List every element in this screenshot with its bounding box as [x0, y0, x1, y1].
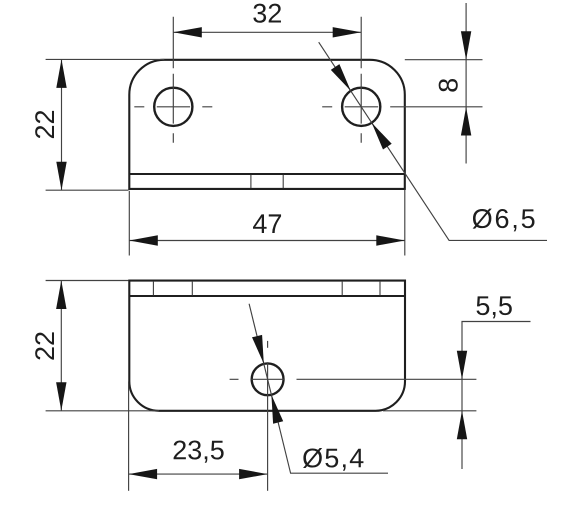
dimension 47 text	[253, 214, 281, 233]
leader Ø5,4 text	[303, 448, 363, 471]
leader Ø6,5 line	[319, 42, 547, 240]
centerline H3 horizontal	[230, 378, 284, 380]
dimension 22 top arrow up	[56, 59, 66, 88]
dimension 8 arrow up	[461, 107, 471, 136]
dimension 5,5 line with shelf	[462, 322, 531, 470]
dimension 23,5 text	[174, 440, 224, 462]
dimension 32 arrow left	[173, 27, 202, 37]
dimension 22 bottom extension top	[46, 280, 129, 282]
centerline H1 horizontal	[134, 106, 212, 108]
bend relief tick 1 top view	[250, 175, 252, 188]
dimension 22 top line	[61, 59, 63, 190]
hole H1 left (Ø6,5)	[154, 88, 192, 126]
dimension 47 arrow left	[129, 235, 158, 245]
part outline bottom view	[129, 281, 405, 411]
centerline H3 vertical top dash	[267, 341, 269, 348]
bend relief tick 3 bottom view	[341, 281, 343, 295]
dimension 22 bottom arrow up	[56, 281, 66, 310]
leader Ø5,4 arrow upper	[252, 335, 264, 364]
dimension 47 arrow right	[376, 235, 405, 245]
dimension 8 text	[439, 79, 458, 92]
dimension 22 top extension top	[46, 58, 165, 60]
hole H2 right (Ø6,5)	[342, 88, 380, 126]
dimension 5,5 arrow up	[457, 411, 467, 440]
dimension 5,5 arrow down	[457, 351, 467, 380]
leader Ø5,4 arrow lower	[271, 395, 283, 424]
hole H3 (Ø5,4)	[252, 363, 284, 395]
dimension 22 top text	[35, 111, 54, 138]
dimension 5,5 extension top / hole center ext	[297, 378, 477, 380]
dimension 5,5 text	[476, 296, 511, 318]
dimension 8 extension bottom / centerline ext	[390, 106, 482, 108]
dimension 32 arrow right	[333, 27, 362, 37]
bend line top view	[129, 173, 405, 175]
part outline top view	[129, 60, 405, 189]
dimension 22 top extension bottom	[46, 189, 129, 191]
centerline H2 horizontal	[322, 106, 378, 108]
leader Ø6,5 arrow upper	[331, 64, 351, 91]
dimension 8 arrow down	[461, 31, 471, 60]
flange line bottom view	[129, 295, 405, 297]
dimension 23,5 arrow right	[239, 469, 268, 479]
dimension 22 bottom text	[35, 332, 54, 359]
dimension 47 line	[129, 240, 405, 242]
bend relief tick 2 bottom view	[191, 281, 193, 295]
dimension 22 bottom extension bottom	[46, 410, 159, 412]
leader Ø5,4 line	[249, 304, 388, 474]
dimension 5,5 extension bottom	[383, 410, 476, 412]
centerline H3 vertical / extension for 23,5	[267, 363, 269, 491]
leader Ø6,5 text	[473, 209, 535, 232]
dimension 23,5 extension left	[128, 382, 130, 491]
dimension 8 extension top	[405, 59, 483, 61]
bend relief tick 1 bottom view	[152, 281, 154, 295]
dimension 32 text	[253, 4, 281, 23]
dimension 23,5 arrow left	[129, 469, 158, 479]
bend relief tick 2 top view	[282, 175, 284, 188]
dimension 47 extension left	[128, 191, 130, 256]
dimension 47 extension right	[404, 190, 406, 256]
dimension 22 bottom arrow down	[56, 382, 66, 411]
bend relief tick 4 bottom view	[379, 281, 381, 295]
dimension 22 bottom line	[60, 281, 62, 411]
centerline H1 vertical / extension for 32	[172, 17, 174, 143]
dimension 32 line	[173, 31, 361, 33]
leader Ø6,5 arrow lower	[372, 123, 392, 150]
dimension 8 line	[465, 3, 467, 164]
dimension 22 top arrow down	[56, 162, 66, 191]
dimension 23,5 line	[129, 473, 268, 475]
centerline H2 vertical / extension for 32	[360, 17, 362, 143]
